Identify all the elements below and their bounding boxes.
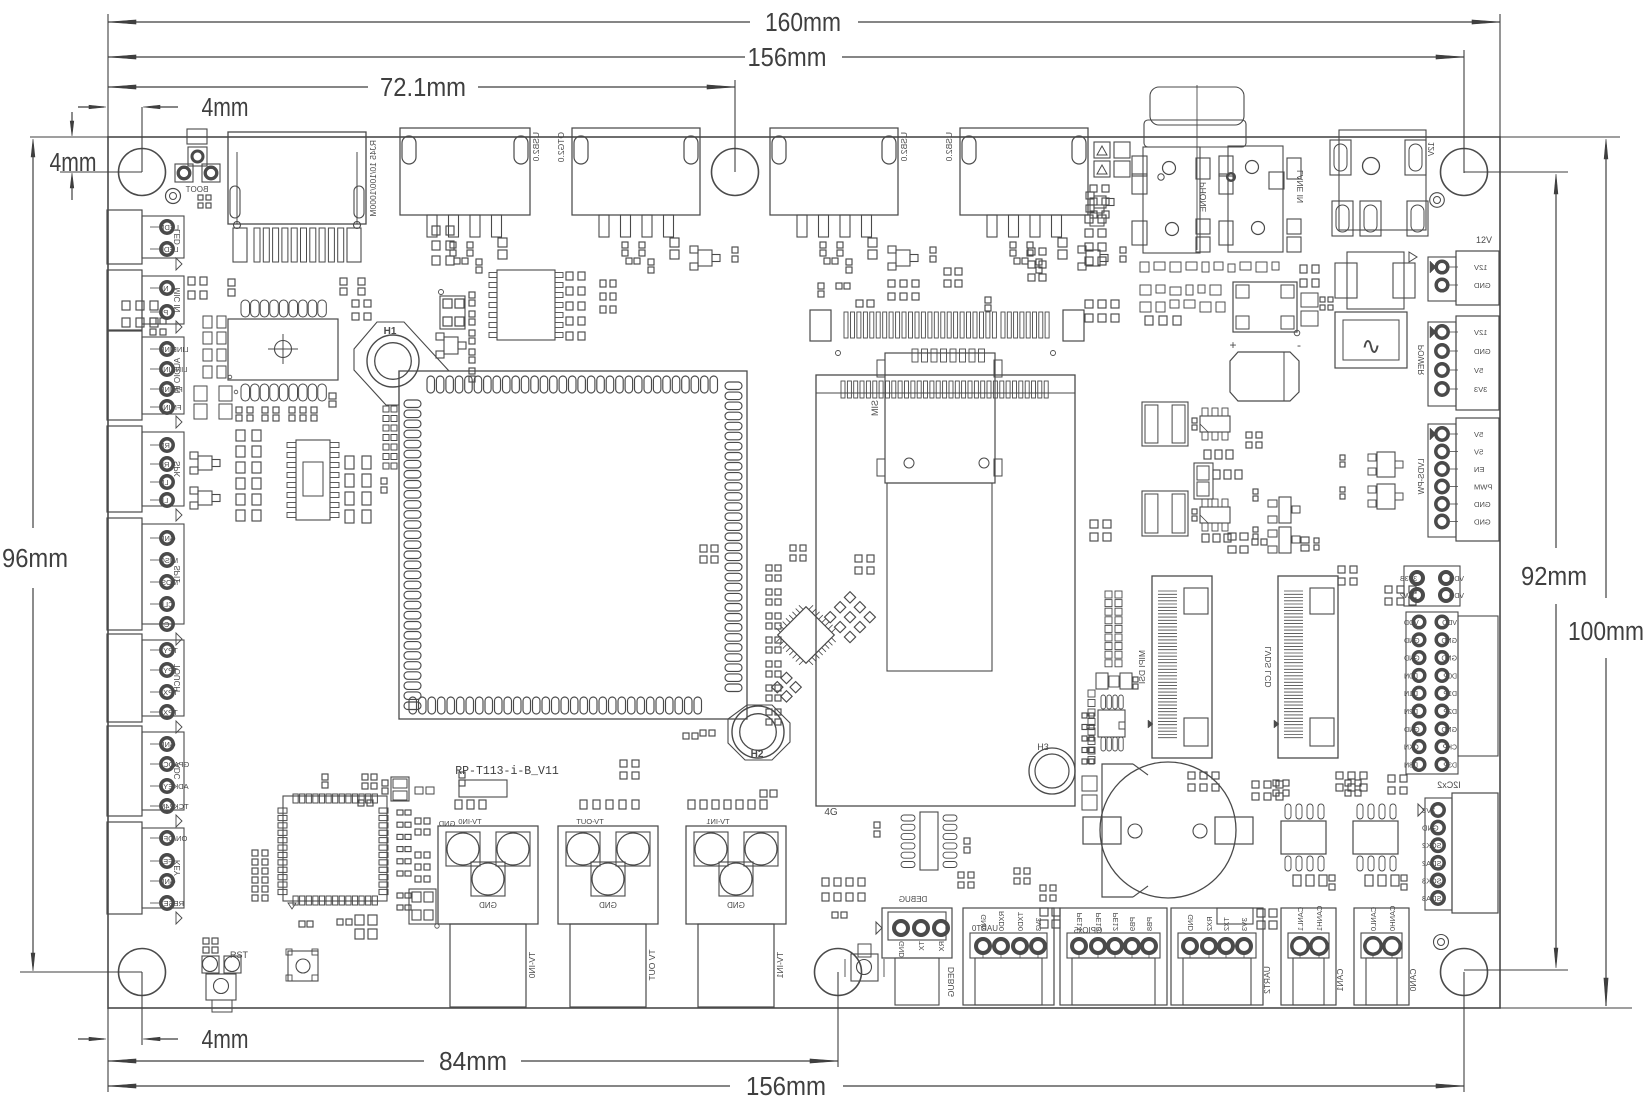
- svg-text:RP: RP: [159, 460, 169, 469]
- svg-text:4mm: 4mm: [202, 94, 249, 122]
- svg-text:CS: CS: [159, 620, 169, 629]
- svg-text:PE12: PE12: [1111, 913, 1120, 931]
- svg-text:EN: EN: [1474, 465, 1484, 474]
- svg-text:TV-IN0: TV-IN0: [458, 817, 481, 826]
- svg-text:ADKEY0: ADKEY0: [159, 782, 189, 791]
- svg-text:12V: 12V: [1474, 263, 1487, 272]
- svg-text:POWER: POWER: [1417, 345, 1426, 375]
- svg-text:5V: 5V: [1474, 448, 1483, 457]
- svg-text:5V: 5V: [1474, 430, 1483, 439]
- svg-text:GND: GND: [1441, 656, 1457, 663]
- svg-text:TXD0: TXD0: [1016, 912, 1025, 931]
- svg-text:GND: GND: [1421, 824, 1438, 833]
- svg-text:VDD: VDD: [1404, 620, 1419, 627]
- svg-text:MIC IN: MIC IN: [173, 288, 182, 313]
- svg-text:P3: P3: [159, 308, 168, 317]
- svg-text:D3P: D3P: [1443, 762, 1457, 769]
- svg-text:PHONE: PHONE: [1198, 182, 1208, 213]
- svg-text:USB2.0: USB2.0: [899, 132, 909, 162]
- svg-text:OTG2.0: OTG2.0: [556, 132, 566, 163]
- svg-text:DEBUG: DEBUG: [899, 895, 927, 904]
- svg-text:CANH0: CANH0: [1388, 906, 1397, 931]
- svg-text:GND: GND: [438, 819, 455, 828]
- svg-text:D3N: D3N: [1404, 762, 1418, 769]
- svg-text:GND: GND: [897, 941, 906, 958]
- svg-text:TV-IN1: TV-IN1: [775, 952, 785, 979]
- svg-text:96mm: 96mm: [2, 545, 68, 573]
- svg-text:TV-IN0: TV-IN0: [527, 952, 537, 979]
- svg-text:D1N: D1N: [1404, 691, 1418, 698]
- svg-text:RX2: RX2: [1205, 916, 1214, 931]
- svg-text:KEY: KEY: [173, 860, 182, 877]
- svg-text:12V: 12V: [1476, 235, 1492, 245]
- svg-text:AUDIO IN: AUDIO IN: [173, 358, 182, 394]
- svg-text:RST: RST: [230, 950, 249, 960]
- svg-text:UART2: UART2: [1262, 966, 1272, 994]
- svg-text:RN: RN: [159, 441, 170, 450]
- svg-text:H1: H1: [384, 326, 397, 337]
- svg-text:92mm: 92mm: [1521, 563, 1587, 591]
- svg-text:VDD: VDD: [1442, 620, 1457, 627]
- svg-text:VDD: VDD: [1449, 576, 1464, 583]
- svg-text:4mm: 4mm: [50, 149, 97, 177]
- svg-text:GND: GND: [727, 901, 745, 910]
- svg-text:12V: 12V: [1427, 142, 1436, 157]
- svg-text:SCK2: SCK2: [1422, 841, 1442, 850]
- svg-text:N3: N3: [159, 284, 169, 293]
- svg-text:GND: GND: [1473, 500, 1490, 509]
- svg-text:FMINL: FMINL: [159, 403, 182, 412]
- svg-text:RESET: RESET: [159, 899, 184, 908]
- svg-text:H2: H2: [751, 749, 764, 760]
- svg-text:4mm: 4mm: [202, 1026, 249, 1054]
- svg-text:SPI1: SPI1: [173, 565, 182, 583]
- svg-text:GND: GND: [158, 877, 175, 886]
- svg-text:156mm: 156mm: [746, 1073, 826, 1101]
- svg-text:GND: GND: [1404, 638, 1420, 645]
- svg-text:D0P: D0P: [1443, 673, 1457, 680]
- svg-text:FEL: FEL: [159, 857, 173, 866]
- svg-text:ON/OFF: ON/OFF: [159, 834, 188, 843]
- svg-text:CKN: CKN: [1404, 745, 1419, 752]
- svg-text:D2P: D2P: [1443, 709, 1457, 716]
- svg-text:TV-OUT: TV-OUT: [576, 817, 604, 826]
- svg-text:TCK24M: TCK24M: [159, 802, 189, 811]
- svg-text:CAN0: CAN0: [1408, 969, 1418, 992]
- svg-text:5W2: 5W2: [1400, 593, 1415, 600]
- svg-text:GND: GND: [479, 901, 497, 910]
- svg-text:LANE IN: LANE IN: [1295, 170, 1305, 203]
- svg-text:VDD: VDD: [1449, 593, 1464, 600]
- svg-text:GND: GND: [599, 901, 617, 910]
- svg-text:100mm: 100mm: [1568, 618, 1643, 646]
- svg-text:CAN1: CAN1: [1335, 969, 1345, 992]
- svg-text:TPY2: TPY2: [159, 646, 178, 655]
- svg-text:SDA2: SDA2: [1422, 859, 1442, 868]
- svg-text:GND: GND: [1473, 347, 1490, 356]
- svg-text:+: +: [1229, 338, 1236, 352]
- svg-text:CANH1: CANH1: [1315, 906, 1324, 931]
- svg-text:PB8: PB8: [1145, 917, 1154, 931]
- svg-text:GND: GND: [1473, 281, 1490, 290]
- svg-text:GND: GND: [1473, 518, 1490, 527]
- svg-text:ADC: ADC: [173, 763, 182, 780]
- svg-text:I2Cx2: I2Cx2: [1437, 780, 1461, 790]
- svg-text:USB2.0: USB2.0: [944, 132, 954, 162]
- svg-text:H3: H3: [1037, 742, 1049, 752]
- svg-text:LED: LED: [173, 229, 182, 245]
- svg-text:LVDS LCD: LVDS LCD: [1263, 647, 1273, 688]
- svg-text:LINEINR: LINEINR: [158, 345, 188, 354]
- svg-text:SPK: SPK: [173, 461, 182, 478]
- svg-text:GND: GND: [1404, 727, 1420, 734]
- svg-text:PB9: PB9: [1128, 917, 1137, 931]
- svg-text:84mm: 84mm: [439, 1048, 507, 1076]
- svg-text:SDA3: SDA3: [1422, 894, 1442, 903]
- svg-text:CLK: CLK: [159, 600, 174, 609]
- svg-text:160mm: 160mm: [765, 9, 841, 37]
- svg-text:D2N: D2N: [1404, 709, 1418, 716]
- svg-text:TPX1: TPX1: [159, 708, 178, 717]
- svg-text:5V: 5V: [1474, 366, 1483, 375]
- svg-text:3V3: 3V3: [1474, 385, 1487, 394]
- svg-text:PWM: PWM: [1474, 483, 1492, 492]
- svg-text:SCK3: SCK3: [1422, 876, 1442, 885]
- svg-text:RJ45 10/100/1000M: RJ45 10/100/1000M: [368, 140, 378, 217]
- svg-text:GPIOx5: GPIOx5: [1073, 926, 1102, 935]
- svg-text:12V: 12V: [1474, 328, 1487, 337]
- svg-text:RX: RX: [937, 941, 946, 951]
- svg-text:GND: GND: [1441, 727, 1457, 734]
- svg-text:MISO: MISO: [159, 556, 178, 565]
- svg-text:3V3B: 3V3B: [1400, 576, 1417, 583]
- svg-text:USB2.0: USB2.0: [531, 132, 541, 162]
- svg-text:72.1mm: 72.1mm: [380, 74, 466, 102]
- svg-text:GND: GND: [158, 740, 175, 749]
- svg-text:CANL1: CANL1: [1296, 907, 1305, 931]
- svg-text:TV-IN1: TV-IN1: [706, 817, 729, 826]
- svg-text:156mm: 156mm: [748, 44, 827, 72]
- svg-text:LVDS-PW: LVDS-PW: [1417, 459, 1426, 495]
- svg-text:BOOT: BOOT: [186, 185, 209, 194]
- svg-text:LP: LP: [159, 496, 168, 505]
- svg-text:D1P: D1P: [1443, 691, 1457, 698]
- svg-text:-: -: [1297, 338, 1301, 352]
- svg-text:GND: GND: [1441, 638, 1457, 645]
- svg-text:GND: GND: [1404, 656, 1420, 663]
- svg-text:CANL0: CANL0: [1369, 907, 1378, 931]
- svg-text:CKP: CKP: [1442, 745, 1457, 752]
- svg-text:TX: TX: [917, 941, 926, 951]
- svg-text:D0N: D0N: [1404, 673, 1418, 680]
- svg-text:UART0: UART0: [971, 924, 998, 933]
- svg-text:∿: ∿: [1361, 333, 1381, 360]
- svg-text:LEDP: LEDP: [159, 245, 179, 254]
- svg-text:4G: 4G: [824, 807, 838, 818]
- svg-text:RP-T113-i-B_V11: RP-T113-i-B_V11: [455, 765, 559, 778]
- svg-text:GND: GND: [1186, 914, 1195, 931]
- svg-text:GND: GND: [158, 534, 175, 543]
- svg-text:SIM: SIM: [870, 400, 880, 416]
- svg-text:TOUCH: TOUCH: [173, 664, 182, 693]
- svg-text:TV OUT: TV OUT: [647, 949, 657, 980]
- svg-text:DEBUG: DEBUG: [946, 967, 956, 997]
- svg-text:LN: LN: [159, 478, 169, 487]
